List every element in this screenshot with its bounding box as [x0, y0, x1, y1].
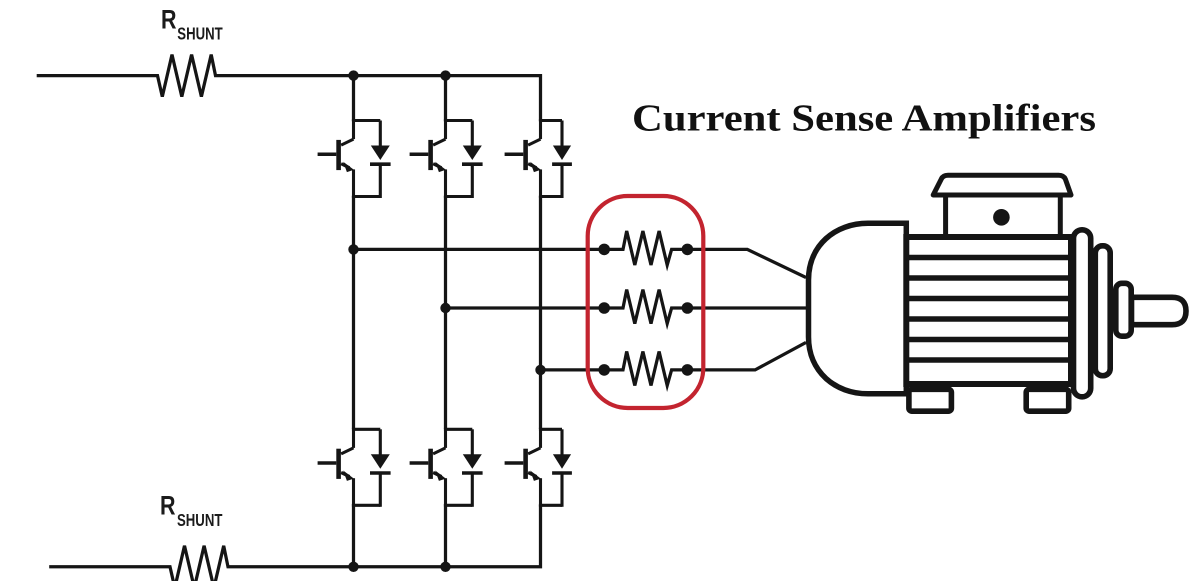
motor terminal box bolt dot [993, 209, 1010, 226]
motor rear flange 1 [1074, 230, 1091, 397]
wire: column 1 mid segment between IGBTs [352, 196, 355, 429]
wire: phase A line with sense resistor to motor [354, 231, 807, 278]
node: sense resistor B left terminal dot [598, 302, 610, 314]
node: sense resistor B right terminal dot [682, 302, 694, 314]
svg-text:SHUNT: SHUNT [177, 24, 223, 44]
wire: phase C line with sense resistor to motor [541, 342, 807, 385]
wire: column 2 from lower IGBT to bottom bus [444, 504, 447, 567]
wire: column 1 from lower IGBT to bottom bus [352, 504, 355, 567]
highlight box: red rounded rectangle around current sense resistors [588, 196, 704, 408]
motor terminal box cap [933, 175, 1071, 195]
transistor Q1: upper IGBT column 1 [318, 120, 391, 199]
wire: column 3 mid segment between IGBTs [539, 196, 542, 429]
motor end bell housing [809, 223, 907, 393]
motor M1: three-phase motor icon [809, 175, 1187, 411]
motor cooling fins [906, 258, 1071, 361]
transistor Q5: upper IGBT column 3 [505, 120, 572, 199]
svg-text:R: R [160, 491, 176, 521]
motor terminal box body [946, 195, 1061, 240]
node: junction dot bottom bus column 2 [440, 562, 450, 572]
motor finned body [906, 237, 1071, 384]
wire: column 2 from top bus to upper IGBT [444, 76, 447, 121]
wire: column 2 mid segment between IGBTs [444, 196, 447, 429]
node: sense resistor C right terminal dot [682, 364, 694, 376]
motor rear flange 2 [1095, 246, 1110, 376]
node: junction dot phase B column 2 [440, 303, 450, 313]
node: junction dot bottom bus column 1 [348, 562, 358, 572]
transistor Q2: lower IGBT column 1 [318, 428, 391, 507]
svg-text:R: R [161, 4, 177, 34]
motor shaft [1132, 297, 1187, 324]
transistor Q6: lower IGBT column 3 [505, 428, 572, 507]
motor left foot [909, 389, 952, 411]
wire: top DC bus with shunt resistor zigzag, to column 3 corner [37, 55, 541, 121]
wire: bottom DC bus with shunt resistor zigzag, to column 3 corner [49, 505, 540, 581]
wire: column 1 from top bus to upper IGBT [352, 76, 355, 121]
svg-text:Current Sense Amplifiers: Current Sense Amplifiers [632, 97, 1096, 139]
transistor Q4: lower IGBT column 2 [410, 428, 483, 507]
transistor Q3: upper IGBT column 2 [410, 120, 483, 199]
node: sense resistor C left terminal dot [598, 364, 610, 376]
node: sense resistor A right terminal dot [682, 244, 694, 256]
motor right foot [1026, 389, 1069, 411]
node: junction dot top bus column 2 [440, 70, 450, 80]
node: junction dot top bus column 1 [348, 70, 358, 80]
wire: phase B line with sense resistor to motor [446, 290, 807, 324]
node: sense resistor A left terminal dot [598, 244, 610, 256]
svg-text:SHUNT: SHUNT [177, 510, 223, 530]
node: junction dot phase A column 1 [348, 244, 358, 254]
node: junction dot phase C column 3 [535, 365, 545, 375]
motor shaft collar [1116, 283, 1131, 336]
